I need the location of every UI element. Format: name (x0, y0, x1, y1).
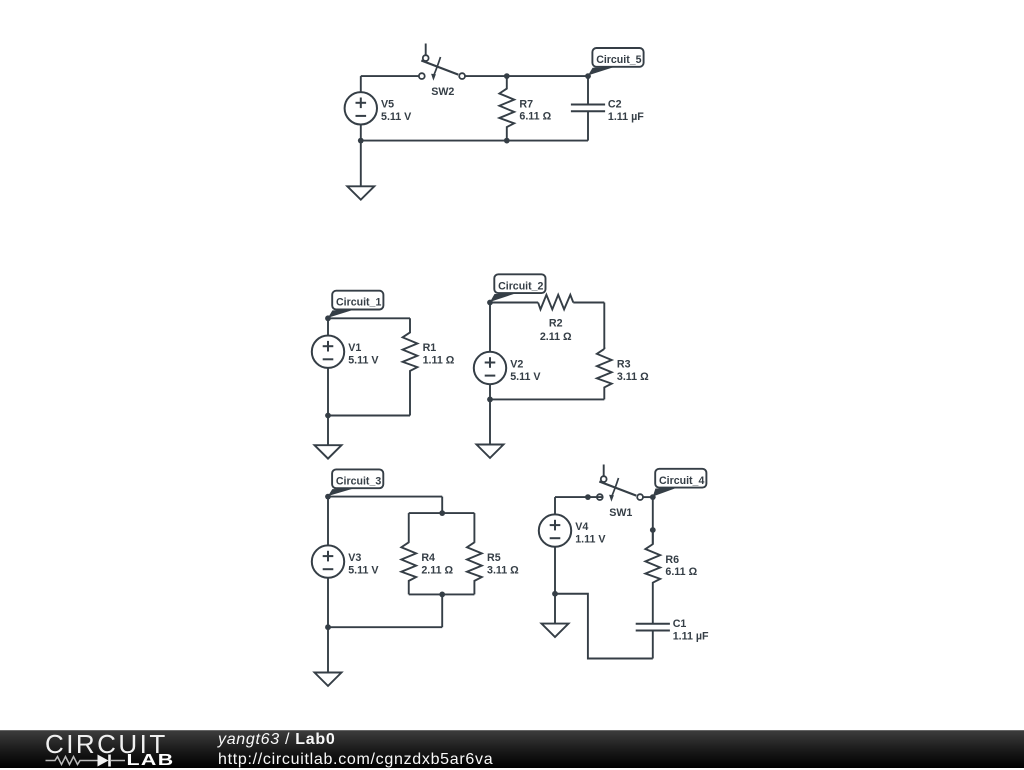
svg-text:5.11 V: 5.11 V (348, 355, 379, 367)
svg-text:R2: R2 (549, 318, 563, 330)
wire down to parallel pair (441, 497, 443, 513)
resistor R6 (645, 530, 660, 624)
svg-text:SW1: SW1 (609, 507, 632, 519)
wire to ground circuit 4 (554, 594, 556, 624)
svg-text:SW2: SW2 (431, 86, 454, 98)
svg-text:Circuit_2: Circuit_2 (498, 280, 543, 292)
svg-text:3.11 Ω: 3.11 Ω (617, 371, 649, 383)
svg-text:5.11 V: 5.11 V (348, 564, 379, 576)
wire C2 top lead (587, 76, 589, 104)
svg-text:5.11 V: 5.11 V (510, 371, 541, 383)
wire C1 bottom return path (555, 594, 653, 659)
wire node to R2 (490, 302, 538, 304)
label R7 value (519, 98, 551, 122)
wire bottom rail circuit 2 (490, 398, 604, 400)
ground circuit 3 (315, 673, 342, 686)
switch SW1 (597, 465, 643, 502)
ground circuit 4 (542, 624, 569, 637)
switch SW2 (419, 44, 465, 81)
svg-text:1.11 V: 1.11 V (575, 533, 606, 545)
svg-text:6.11 Ω: 6.11 Ω (665, 566, 697, 578)
node flag Circuit_4 (653, 469, 707, 497)
wire to ground circuit 1 (327, 416, 329, 446)
wire V2 top lead (489, 303, 491, 352)
junction V3 bottom (325, 624, 331, 630)
wire C2 bottom lead (587, 111, 589, 140)
label C1 value (673, 618, 709, 642)
junction V2 bottom (487, 397, 493, 403)
wire bottom rail circuit 1 (328, 415, 410, 417)
svg-text:Circuit_4: Circuit_4 (659, 475, 704, 487)
resistor R7 (499, 76, 514, 141)
svg-text:3.11 Ω: 3.11 Ω (487, 564, 519, 576)
node flag Circuit_5 (588, 48, 644, 75)
label R2 value (540, 318, 572, 343)
ground circuit 2 (477, 445, 504, 458)
label V3 value (348, 552, 379, 576)
wire V3 top lead (327, 497, 329, 546)
voltage source V4 (539, 514, 571, 546)
wire V3 bottom lead (327, 578, 329, 627)
wire R2 to corner (573, 302, 604, 304)
wire V4 to SW1 (555, 496, 603, 498)
voltage source V3 (312, 545, 344, 577)
wire V5 to SW2 (361, 75, 419, 77)
resistor R5 (467, 542, 482, 594)
wire V4 top lead (554, 497, 556, 514)
junction R7 bottom (504, 138, 510, 144)
svg-text:Circuit_3: Circuit_3 (336, 475, 381, 487)
label R1 value (423, 342, 455, 366)
junction Circuit_1 node (325, 315, 331, 321)
label V4 value (575, 521, 606, 545)
wire V1 top lead (327, 318, 329, 335)
svg-text:C1: C1 (673, 618, 687, 630)
footer bar (0, 730, 1024, 768)
wire R3 top lead (603, 303, 605, 350)
junction Circuit_3 node (325, 494, 331, 500)
capacitor C2 (571, 105, 605, 112)
wire parallel bottom rail (409, 593, 475, 595)
ground circuit 5 (347, 186, 374, 199)
junction R7 top (504, 73, 510, 79)
junction parallel bottom (439, 592, 445, 598)
resistor R1 (403, 318, 418, 415)
label R3 value (617, 359, 649, 383)
svg-text:R4: R4 (421, 552, 435, 564)
voltage source V2 (474, 352, 506, 384)
CircuitLab logo (40, 731, 190, 769)
wire bottom rail circuit 3 (328, 626, 442, 628)
junction V5 bottom (358, 138, 364, 144)
svg-text:1.11 µF: 1.11 µF (608, 111, 644, 123)
label C2 value (608, 99, 644, 123)
label V2 value (510, 358, 541, 382)
svg-text:R1: R1 (423, 342, 437, 354)
wire to ground circuit 5 (360, 141, 362, 187)
node flag Circuit_3 (328, 469, 383, 496)
wire C1 bottom lead (652, 631, 654, 659)
wire SW1 to node (643, 496, 653, 498)
svg-text:5.11 V: 5.11 V (381, 111, 412, 123)
node flag Circuit_2 (490, 274, 546, 302)
wire to ground circuit 3 (327, 627, 329, 672)
label V1 value (348, 342, 379, 366)
svg-text:V2: V2 (510, 358, 523, 370)
wire SW2 to C2 top (465, 75, 588, 77)
wire V5 bottom lead (360, 125, 362, 141)
label R4 value (421, 552, 453, 576)
wire R5 top lead (473, 513, 475, 542)
svg-text:Circuit_5: Circuit_5 (596, 54, 641, 66)
junction R6 top wire (650, 527, 656, 533)
resistor R2 (538, 295, 573, 310)
svg-text:V4: V4 (575, 521, 588, 533)
wire V2 bottom lead (489, 384, 491, 399)
node flag Circuit_1 (328, 291, 383, 318)
capacitor C1 (636, 624, 670, 631)
svg-text:V1: V1 (348, 342, 361, 354)
junction V4 bottom (552, 591, 558, 597)
wire V5 top lead (360, 76, 362, 92)
junction Circuit_2 node (487, 300, 493, 306)
wire top rail circuit 3 (328, 496, 442, 498)
junction C2 top node (585, 73, 591, 79)
wire to ground circuit 2 (489, 399, 491, 444)
ground circuit 1 (315, 445, 342, 458)
label R6 value (665, 554, 697, 578)
wire bottom rail circuit 5 (361, 140, 588, 142)
wire V4 bottom lead (554, 547, 556, 594)
svg-text:Circuit_1: Circuit_1 (336, 297, 381, 309)
svg-text:C2: C2 (608, 99, 622, 111)
voltage source V5 (345, 92, 377, 124)
footer title text (218, 730, 493, 770)
junction Circuit_4 node (650, 494, 656, 500)
svg-text:6.11 Ω: 6.11 Ω (519, 111, 551, 123)
junction top wire circuit 4 (585, 494, 591, 500)
svg-text:LAB: LAB (127, 751, 175, 768)
svg-text:V5: V5 (381, 99, 394, 111)
junction V1 bottom (325, 413, 331, 419)
label R5 value (487, 552, 519, 576)
resistor R3 (597, 349, 612, 399)
label V5 value (381, 99, 412, 123)
svg-text:R7: R7 (519, 98, 533, 110)
wire node to R6 (652, 497, 654, 544)
wire top rail circuit 1 (328, 317, 410, 319)
wire down from parallel pair (441, 594, 443, 627)
wire R4 top lead (408, 513, 410, 542)
svg-text:1.11 µF: 1.11 µF (673, 630, 709, 642)
voltage source V1 (312, 336, 344, 368)
svg-text:2.11 Ω: 2.11 Ω (421, 564, 453, 576)
svg-text:R3: R3 (617, 359, 631, 371)
junction parallel top (439, 510, 445, 516)
svg-text:R5: R5 (487, 552, 501, 564)
svg-text:1.11 Ω: 1.11 Ω (423, 355, 455, 367)
svg-text:V3: V3 (348, 552, 361, 564)
resistor R4 (401, 542, 416, 594)
svg-text:2.11 Ω: 2.11 Ω (540, 331, 572, 343)
svg-text:R6: R6 (665, 554, 679, 566)
wire V1 bottom lead (327, 368, 329, 416)
wire parallel top rail (409, 512, 475, 514)
